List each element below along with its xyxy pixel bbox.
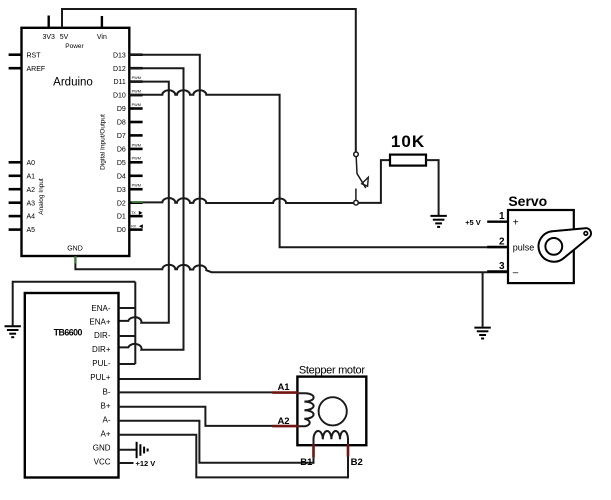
svg-text:PWM: PWM bbox=[132, 157, 141, 161]
pin Vin stub bbox=[101, 16, 103, 28]
wire resistor to ground bbox=[426, 160, 439, 215]
servo horn bbox=[539, 228, 591, 262]
svg-text:Vin: Vin bbox=[97, 34, 107, 41]
wire D10 to servo pulse (hops over D11,D12,D13 wires) bbox=[129, 90, 508, 247]
svg-text:A2: A2 bbox=[27, 187, 36, 194]
pin D3 bbox=[129, 188, 142, 191]
svg-text:A+: A+ bbox=[100, 429, 110, 438]
svg-text:A1: A1 bbox=[27, 173, 36, 180]
pin D6 bbox=[129, 148, 142, 151]
Arduino U1 body bbox=[22, 28, 130, 256]
pin D13 bbox=[129, 53, 142, 56]
pin D4 bbox=[129, 175, 142, 178]
svg-text:10K: 10K bbox=[391, 132, 425, 151]
switch bottom terminal bbox=[354, 200, 359, 205]
switch top terminal bbox=[354, 152, 359, 157]
pin D8 bbox=[129, 121, 142, 124]
pin B2 (red) bbox=[347, 444, 350, 457]
svg-text:PWM: PWM bbox=[132, 184, 141, 188]
svg-text:Stepper motor: Stepper motor bbox=[299, 364, 365, 376]
wire B+ to stepper A2 bbox=[119, 407, 273, 426]
svg-text:TX: TX bbox=[131, 211, 136, 215]
ground (servo) bbox=[474, 328, 490, 339]
green pin remnant D2 bbox=[132, 201, 143, 203]
coil B (bottom) bbox=[314, 431, 349, 445]
svg-text:D12: D12 bbox=[113, 66, 126, 73]
svg-text:VCC: VCC bbox=[94, 457, 111, 466]
svg-text:ENA+: ENA+ bbox=[89, 318, 110, 327]
svg-text:B+: B+ bbox=[100, 401, 110, 410]
svg-text:A3: A3 bbox=[27, 200, 36, 207]
pin D10 bbox=[129, 94, 142, 97]
green pin remnant GND bbox=[74, 256, 76, 263]
pin 3V3 stub bbox=[48, 16, 50, 28]
svg-text:AREF: AREF bbox=[27, 66, 46, 73]
node common minus vertical bbox=[134, 282, 136, 364]
wire common minus to left ground bbox=[13, 282, 136, 326]
svg-text:D11: D11 bbox=[113, 79, 125, 86]
pin D11 bbox=[129, 80, 142, 83]
svg-text:D2: D2 bbox=[117, 200, 126, 207]
svg-text:2: 2 bbox=[499, 236, 505, 247]
svg-text:PWM: PWM bbox=[132, 90, 141, 94]
TB6600 driver body bbox=[25, 293, 119, 478]
svg-text:3: 3 bbox=[499, 261, 505, 272]
pin A5 bbox=[9, 228, 22, 231]
svg-text:D6: D6 bbox=[117, 147, 126, 154]
wire branch to servo ground bbox=[482, 272, 484, 326]
pin 2 stub bbox=[487, 246, 508, 248]
svg-text:A1: A1 bbox=[277, 382, 290, 393]
pin D9 bbox=[129, 107, 142, 110]
switch lever bbox=[356, 157, 366, 188]
svg-text:GND: GND bbox=[93, 444, 111, 453]
svg-text:A5: A5 bbox=[27, 227, 36, 234]
wire D11 to ENA+ (hop at common vertical) bbox=[119, 82, 169, 323]
pin A2 bbox=[9, 188, 22, 191]
svg-text:3V3: 3V3 bbox=[42, 34, 55, 41]
svg-text:DIR+: DIR+ bbox=[92, 345, 111, 354]
svg-text:B2: B2 bbox=[351, 457, 363, 468]
pin VCC stub bbox=[119, 462, 134, 464]
svg-text:A-: A- bbox=[103, 416, 111, 425]
svg-text:–: – bbox=[513, 268, 519, 279]
pin A3 bbox=[9, 201, 22, 204]
pin A1 bbox=[9, 175, 22, 178]
svg-text:PWM: PWM bbox=[132, 143, 141, 147]
svg-text:Digital Input/Output: Digital Input/Output bbox=[100, 114, 107, 170]
pin D5 bbox=[129, 161, 142, 164]
rotor circle bbox=[319, 397, 347, 425]
pin 3 stub bbox=[487, 270, 508, 272]
svg-text:RX: RX bbox=[131, 225, 137, 229]
svg-text:TB6600: TB6600 bbox=[54, 328, 83, 338]
pin D12 bbox=[129, 67, 142, 70]
svg-text:A0: A0 bbox=[27, 160, 36, 167]
pin D0 RX bbox=[129, 228, 142, 231]
svg-text:5V: 5V bbox=[60, 34, 69, 41]
svg-text:A2: A2 bbox=[277, 416, 289, 427]
wire 5V to switch top bbox=[62, 9, 356, 152]
svg-text:Servo: Servo bbox=[508, 193, 547, 209]
wire D2 to switch (hops over four verticals) bbox=[143, 198, 354, 203]
wire D13 to PUL+ bbox=[119, 55, 200, 379]
wire A+ to stepper B2 bbox=[119, 435, 349, 478]
pin A4 bbox=[9, 215, 22, 218]
svg-text:ENA-: ENA- bbox=[91, 304, 110, 313]
svg-text:D8: D8 bbox=[117, 120, 126, 127]
wire Arduino GND to servo minus (hops) bbox=[75, 263, 508, 272]
ground (TB6600 common) bbox=[5, 326, 21, 337]
wire A- to stepper B1 bbox=[119, 421, 314, 463]
switch arrow bbox=[362, 177, 369, 186]
svg-text:+12 V: +12 V bbox=[136, 459, 156, 468]
wire D12 to DIR+ (hop at common vertical) bbox=[119, 68, 184, 350]
svg-text:D10: D10 bbox=[113, 93, 126, 100]
svg-text:PUL+: PUL+ bbox=[90, 373, 111, 382]
pin RST bbox=[9, 53, 22, 56]
ground (resistor) bbox=[430, 216, 446, 227]
wire B- to stepper A1 bbox=[119, 391, 273, 393]
svg-text:+: + bbox=[513, 218, 519, 229]
pin B1 (red) bbox=[312, 444, 315, 458]
pin D1 TX bbox=[129, 215, 142, 218]
pin A2 (red) bbox=[272, 425, 299, 428]
pin A0 bbox=[9, 161, 22, 164]
pin 1 stub bbox=[487, 220, 508, 222]
wire switch to resistor bbox=[358, 160, 390, 203]
svg-text:Arduino: Arduino bbox=[53, 76, 93, 88]
resistor R1 10K bbox=[390, 155, 426, 166]
pin D2 bbox=[129, 201, 142, 204]
pin A1 (red) bbox=[272, 391, 299, 394]
svg-text:D5: D5 bbox=[117, 160, 126, 167]
pin GND stub bbox=[119, 449, 136, 451]
svg-text:D13: D13 bbox=[113, 52, 126, 59]
svg-text:D4: D4 bbox=[117, 173, 126, 180]
svg-text:D7: D7 bbox=[117, 133, 126, 140]
svg-text:DIR-: DIR- bbox=[94, 331, 111, 340]
svg-text:PUL-: PUL- bbox=[92, 359, 111, 368]
pin D7 bbox=[129, 134, 142, 137]
coil A (left) bbox=[299, 393, 314, 426]
svg-text:Analog Input: Analog Input bbox=[38, 178, 45, 215]
svg-text:pulse: pulse bbox=[513, 243, 535, 253]
svg-text:Power: Power bbox=[65, 43, 84, 50]
svg-text:A4: A4 bbox=[27, 214, 36, 221]
svg-text:GND: GND bbox=[67, 245, 83, 252]
svg-text:PWM: PWM bbox=[132, 103, 141, 107]
svg-text:1: 1 bbox=[499, 211, 505, 222]
svg-text:B1: B1 bbox=[300, 457, 313, 468]
svg-text:D3: D3 bbox=[117, 187, 126, 194]
ground (rotated, TB6600 GND) bbox=[137, 442, 148, 458]
svg-text:D9: D9 bbox=[117, 106, 126, 113]
svg-text:B-: B- bbox=[103, 387, 111, 396]
svg-text:PWM: PWM bbox=[132, 76, 141, 80]
svg-text:RST: RST bbox=[27, 52, 42, 59]
svg-text:D0: D0 bbox=[117, 227, 126, 234]
svg-text:+5 V: +5 V bbox=[465, 218, 481, 227]
switch bottom stub bbox=[355, 189, 357, 200]
svg-text:D1: D1 bbox=[117, 214, 126, 221]
pin AREF bbox=[9, 67, 22, 70]
